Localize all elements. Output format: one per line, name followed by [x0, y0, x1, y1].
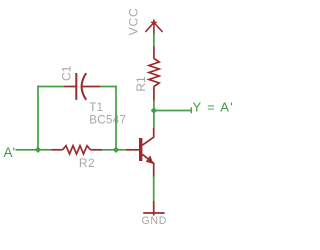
resistor R2 pin right [91, 149, 103, 151]
wire top left to C1 [37, 86, 64, 88]
wire corner down to base junction [115, 86, 117, 150]
power symbol VCC arrow [146, 20, 162, 34]
svg-text:GND: GND [141, 215, 167, 227]
capacitor C1 pin left [64, 86, 76, 88]
resistor R1 zigzag [149, 59, 159, 87]
wire node to collector pin [153, 111, 155, 129]
wire VCC to R1 [153, 34, 155, 47]
transistor T1 collector pin [142, 128, 153, 145]
capacitor C1 pin right [81, 86, 100, 88]
svg-text:R2: R2 [79, 156, 95, 170]
svg-text:C1: C1 [60, 65, 74, 81]
transistor T1 emitter [142, 154, 153, 176]
wire R1 to node [153, 101, 155, 111]
resistor R1 pin bottom [153, 87, 155, 101]
resistor R1 pin top [153, 47, 155, 59]
junction node collector [151, 107, 157, 113]
ground pin [153, 201, 155, 216]
transistor T1 emitter arrowhead [146, 155, 154, 164]
wire node to output Y [154, 110, 191, 112]
wire end tick [190, 107, 192, 113]
wire emitter to GND [153, 177, 155, 202]
wire junction to R2 [38, 149, 52, 151]
transistor T1 base pin [126, 149, 139, 151]
capacitor C1 straight plate [75, 73, 77, 100]
svg-text:Y = A': Y = A' [193, 99, 235, 114]
svg-text:VCC: VCC [127, 7, 141, 35]
svg-text:T1: T1 [89, 102, 103, 114]
svg-text:A': A' [4, 145, 16, 160]
svg-text:R1: R1 [134, 76, 148, 92]
junction node left [35, 147, 41, 153]
junction node base [113, 147, 119, 153]
svg-text:BC547: BC547 [89, 115, 126, 127]
transistor T1 base bar [139, 138, 142, 161]
wire A' to junction [16, 149, 39, 151]
wire C1 right to corner [100, 86, 117, 88]
resistor R2 zigzag [63, 146, 91, 154]
ground bar [143, 212, 164, 214]
wire R2 to base junction [102, 149, 126, 151]
capacitor C1 curved plate [82, 73, 87, 100]
wire junction up left side [37, 86, 39, 150]
resistor R2 pin left [52, 149, 63, 151]
